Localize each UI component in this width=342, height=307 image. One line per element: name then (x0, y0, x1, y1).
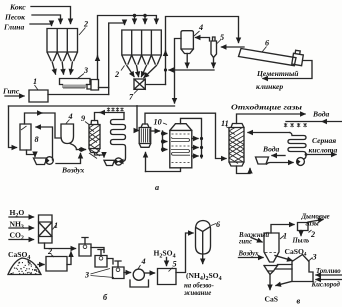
svg-text:(NH4)2SO4: (NH4)2SO4 (186, 271, 222, 282)
svg-text:на обезво-: на обезво- (184, 283, 215, 290)
label 10 (154, 118, 168, 127)
svg-text:6: 6 (216, 220, 221, 229)
drying tower 1 (в) (264, 233, 279, 262)
SO2 oxidation tower (139, 124, 151, 147)
wire saturator to crystallizer (176, 233, 193, 273)
wire recycle to tower 4 (42, 113, 61, 138)
absorber 11 (229, 124, 244, 167)
wire pump to saturator (144, 272, 154, 274)
saturator 5 (158, 269, 177, 285)
node feed 3 (161, 148, 164, 151)
wire outlet arrow 2 (192, 147, 198, 149)
wire sand feed (32, 15, 61, 24)
wire absorber bottom outlet (237, 166, 251, 174)
node on feed line (133, 14, 136, 17)
wire feed arrow 3 (163, 149, 167, 151)
svg-text:6: 6 (265, 39, 270, 48)
svg-text:Дымовые: Дымовые (301, 214, 330, 221)
node dust return (164, 68, 167, 71)
label 2 (group 2) (114, 66, 125, 80)
wire tank A to B (91, 248, 104, 253)
node air junction (79, 148, 82, 151)
tray row 1 dots (172, 133, 190, 135)
collector bowl under 9 (104, 160, 115, 165)
label 7 (129, 90, 138, 102)
cyclone 2 (в) (298, 223, 309, 231)
wire outlet arrow 1 (192, 138, 198, 140)
wire tower top to gas line (145, 113, 226, 158)
silos group 2 (bunkers 2) (122, 30, 162, 78)
svg-text:в: в (297, 297, 301, 306)
wire washer top recycle (25, 113, 43, 124)
label 5 (217, 33, 224, 44)
label 2 (б) (47, 247, 54, 257)
svg-text:4: 4 (198, 23, 203, 32)
label 4 (top) (194, 23, 203, 36)
wire tower gas to cyclone (271, 225, 294, 234)
wire tank C to pump (124, 272, 131, 274)
wire feed arrow 1 (163, 133, 167, 135)
node feed 2 (161, 140, 164, 143)
svg-text:4: 4 (141, 257, 146, 266)
svg-text:Топливо: Топливо (316, 268, 341, 275)
reduction furnace 3 (в) (292, 255, 313, 282)
wire CaS out (269, 275, 271, 290)
wire wet gypsum feed (251, 238, 262, 243)
wire dust out (300, 231, 302, 236)
svg-text:CaS: CaS (265, 295, 279, 304)
wire air feed (в) (239, 257, 264, 259)
svg-text:клинкер: клинкер (256, 82, 283, 91)
svg-text:Серная: Серная (312, 136, 336, 145)
wire crystallizer outlet (202, 254, 204, 264)
wire acid product out (306, 154, 336, 156)
svg-text:9: 9 (81, 114, 85, 123)
svg-text:3: 3 (84, 271, 89, 280)
label 1 (б) (53, 221, 59, 230)
wire absorber offgas (237, 114, 306, 124)
dryer box 1 (29, 90, 48, 102)
wire water feed (286, 121, 342, 123)
node acid outlet (305, 153, 308, 156)
wire feed to SO2 tower (137, 106, 139, 131)
wire acid to absorber spray (248, 132, 290, 134)
svg-text:7: 7 (129, 93, 134, 102)
wire clay feed (30, 24, 52, 26)
pump under 8 (45, 157, 53, 165)
wire bottom return line (146, 168, 181, 172)
elevator boot (87, 80, 99, 91)
drying tower 9 (89, 121, 100, 159)
wire boot to silo-1 elevator (99, 87, 109, 89)
svg-text:Кокс: Кокс (9, 3, 26, 12)
conveyor 3 (60, 79, 91, 89)
label 3 (в) (308, 253, 317, 262)
bucket elevator to silos 2-4 (98, 16, 157, 80)
svg-text:кислота: кислота (309, 146, 338, 155)
elevator 2 up arrow (165, 51, 167, 56)
spray marks over cooler (284, 123, 307, 127)
contact apparatus 10 (170, 124, 192, 168)
svg-text:Песок: Песок (4, 13, 25, 22)
node outlet 3 (200, 154, 203, 157)
cyclone 5 (211, 37, 217, 58)
wire CO2 feed (9, 239, 34, 241)
wire washer 8 bottom outlet (27, 150, 36, 157)
svg-text:1: 1 (33, 77, 37, 86)
wire to drying tower 9 (77, 149, 86, 151)
wire outlet arrow 3 (192, 155, 198, 157)
svg-text:5: 5 (220, 33, 224, 42)
wire box1 to elevator (48, 94, 109, 96)
silos group 1 (bunkers 2) (47, 29, 78, 75)
wire tower9 bottom outlet (95, 153, 105, 158)
svg-text:10: 10 (154, 118, 162, 127)
washer tower 8 (20, 124, 31, 150)
wire oxygen feed (316, 279, 342, 281)
svg-text:Глина: Глина (3, 23, 25, 32)
wire dust collect line (169, 69, 214, 71)
wire drop to silo 3 (144, 16, 146, 24)
svg-text:4: 4 (68, 112, 73, 121)
wire CaSO4 to furnace (275, 256, 292, 261)
collector bowl under 11 (256, 157, 269, 164)
tray coil 1 (171, 137, 190, 141)
svg-text:Отходящие газы: Отходящие газы (231, 103, 303, 112)
wire tower outlet right (151, 130, 160, 132)
reactor tank B (95, 250, 107, 268)
svg-text:H2SO4: H2SO4 (154, 249, 176, 260)
label 2 (group 1) (79, 20, 88, 36)
svg-text:2: 2 (114, 70, 119, 79)
wire flue gas out (308, 220, 323, 223)
elevator 2 riser (166, 17, 239, 85)
wire tower9 spray line (100, 112, 124, 114)
wire pump riser to washer 8 (36, 127, 53, 160)
svg-text:3: 3 (312, 253, 317, 262)
label 6 (б) (211, 220, 221, 229)
acid pump (296, 158, 304, 166)
wire mixer to elevator 2 (145, 84, 165, 86)
node on feed line (143, 14, 146, 17)
wire collector to pump (267, 163, 294, 165)
label 1 (33, 77, 38, 90)
label 5 (б) (169, 260, 177, 272)
acid cooler coil (left) (111, 113, 126, 162)
svg-text:б: б (103, 293, 108, 302)
svg-text:живание: живание (184, 290, 211, 297)
svg-text:газы: газы (306, 221, 320, 228)
wire header to washer 8 (9, 106, 17, 148)
label 11 (221, 119, 230, 129)
wire gypsum feed arrow (5, 95, 24, 97)
contact apparatus 10 feed line (162, 131, 164, 150)
node feed 1 (161, 132, 164, 135)
wire mill riser to reactor (67, 252, 71, 265)
svg-text:NH3: NH3 (10, 220, 24, 231)
svg-text:Воздух: Воздух (238, 251, 260, 258)
pump under 9 (115, 158, 122, 165)
collecting funnel (264, 266, 278, 275)
wire cyclone4 outlet down (186, 54, 188, 68)
wire coke feed (31, 7, 71, 24)
label 1 (в) (280, 232, 287, 241)
tray coil 2 (171, 150, 190, 156)
gypsum pile CaSO4 (8, 258, 41, 275)
wire water to collector (272, 155, 285, 157)
mill 2 (46, 257, 67, 272)
mixer box 7 (134, 79, 145, 89)
wire pump to cooler (304, 156, 306, 160)
wire funnel links (275, 265, 292, 270)
elevator to silo 1 (vertical) (109, 23, 125, 95)
svg-text:а: а (155, 183, 159, 192)
label 2 (в) (309, 230, 316, 239)
centrifuge pump 4 (130, 269, 149, 287)
svg-text:2: 2 (310, 230, 315, 239)
wire tower bottom return (145, 153, 147, 172)
tray row 3 dots (172, 162, 190, 164)
svg-text:Вода: Вода (262, 145, 280, 154)
wire column1 outlet (45, 243, 76, 249)
carbonizer column 1 (39, 215, 53, 243)
svg-text:2: 2 (83, 20, 88, 29)
label 9 (81, 114, 89, 125)
label 6 (262, 39, 270, 53)
svg-text:Кислород: Кислород (311, 282, 341, 289)
node outlet 1 (200, 137, 203, 140)
wire kiln gas to cyclone 5 (222, 46, 245, 48)
label 3 (77, 66, 88, 79)
wire H2O feed (9, 216, 34, 218)
wire main gas header (9, 105, 175, 107)
wire pile to mill (38, 264, 44, 266)
wire drop to silo 2 (134, 16, 136, 24)
wire feed arrow 2 (163, 141, 167, 143)
electrofilter 4 (middle) (61, 124, 74, 144)
wire cyclone5 outlet down (213, 58, 215, 68)
elevator up arrow (97, 56, 99, 60)
svg-text:Пыль: Пыль (292, 238, 310, 245)
label 3 (б) (84, 269, 114, 280)
svg-text:11: 11 (221, 119, 229, 128)
wire CaS from furnace (276, 282, 292, 286)
reactor tank A (79, 238, 91, 257)
wire apparatus 10 top pipe (181, 118, 202, 158)
svg-text:Воздух: Воздух (61, 166, 85, 175)
tray row 2 dots (172, 145, 190, 147)
crystallizer 6 (196, 221, 211, 255)
svg-text:5: 5 (173, 260, 177, 269)
wire clinker out (263, 61, 312, 79)
acid cooler coil (right) (288, 133, 306, 155)
svg-text:Вода: Вода (312, 110, 330, 119)
reactor tank C (113, 261, 125, 279)
svg-text:Цементный: Цементный (256, 69, 299, 78)
wire air feed (56, 154, 81, 164)
node outlet 2 (200, 146, 203, 149)
wire filter4 outlet (70, 144, 77, 150)
svg-text:8: 8 (35, 135, 39, 144)
wire NH3 feed (9, 227, 34, 229)
spray marks over tower 9 line (107, 108, 124, 112)
wire 5 to 4 (196, 38, 210, 42)
wire tank B to C (107, 259, 113, 265)
rotary kiln 6 (239, 49, 304, 66)
collector bowl under 8 (34, 158, 48, 165)
wire gas pipe to acid plant (175, 39, 182, 104)
label 4 (б) (138, 257, 146, 269)
cyclone 4 (top) (181, 31, 193, 54)
wire fuel feed (316, 274, 342, 276)
label 4 (middle) (66, 112, 73, 124)
wire H2SO4 feed (166, 258, 168, 266)
svg-text:Гипс: Гипс (2, 87, 20, 96)
svg-text:гипс: гипс (239, 239, 252, 246)
